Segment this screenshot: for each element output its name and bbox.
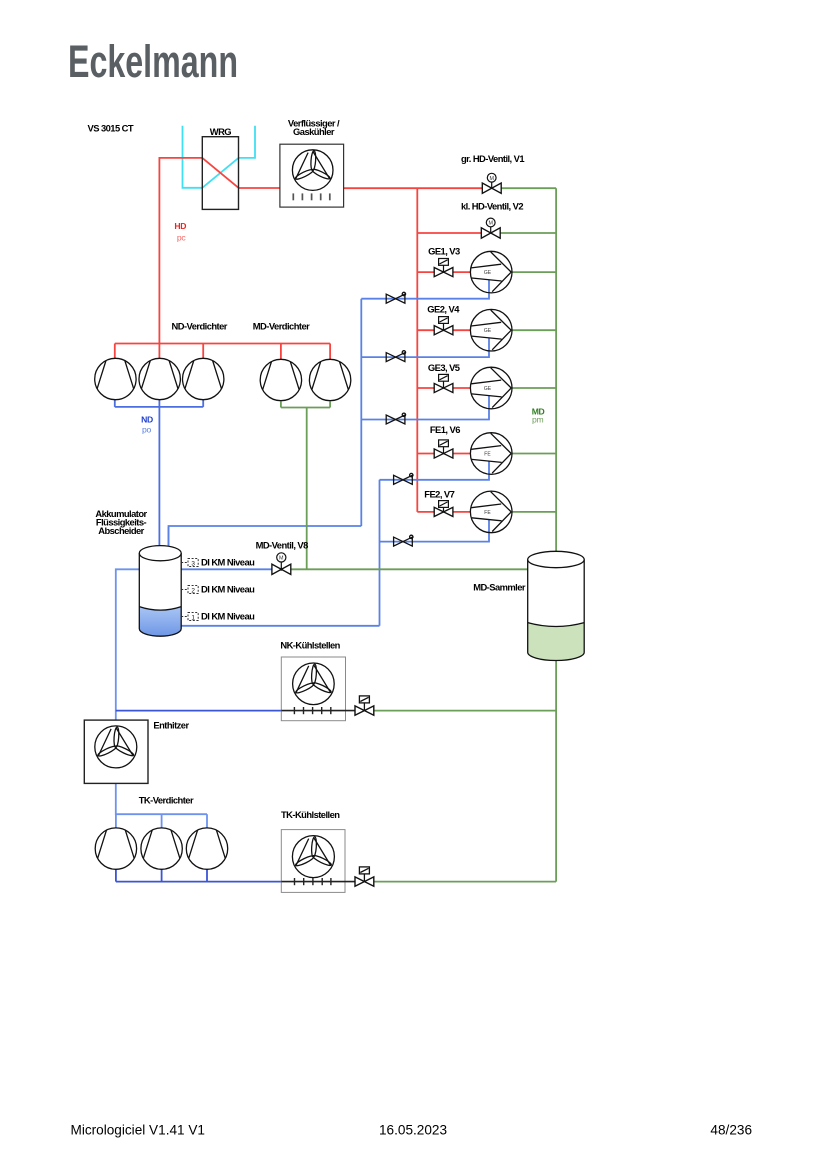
wire blue NK feed bbox=[116, 710, 281, 712]
wire red branch V2 bbox=[417, 232, 481, 234]
wire red stub ND2 bbox=[158, 344, 160, 360]
compressor GE1 bbox=[470, 251, 512, 293]
wire cyan WRG water in bbox=[183, 126, 203, 188]
svg-text:VS 3015 CT: VS 3015 CT bbox=[88, 123, 134, 134]
wire green FE1 out bbox=[512, 453, 556, 455]
svg-text:M: M bbox=[279, 556, 284, 562]
svg-text:GE3, V5: GE3, V5 bbox=[428, 362, 460, 373]
wire blue bypass FE1 bbox=[380, 462, 490, 480]
wire green V8 to MD-Sammler bbox=[291, 568, 528, 570]
wire cyan WRG water out bbox=[239, 126, 256, 158]
compressor ND1 bbox=[95, 358, 136, 399]
wire blue accumulator bottom to FE riser bbox=[181, 625, 379, 627]
wire blue Enthitzer to TK header bbox=[116, 783, 207, 814]
valve bypass FE1 bbox=[394, 473, 413, 484]
valve bypass FE2 bbox=[394, 535, 413, 546]
Enthitzer box bbox=[84, 720, 148, 783]
svg-text:pm: pm bbox=[532, 415, 543, 425]
valve GE3 V5 solenoid bbox=[434, 374, 453, 392]
svg-text:FE2, V7: FE2, V7 bbox=[424, 489, 454, 500]
svg-text:gr. HD-Ventil, V1: gr. HD-Ventil, V1 bbox=[461, 153, 524, 164]
compressor FE1 bbox=[470, 433, 512, 475]
wire blue bypass FE2 bbox=[380, 520, 490, 542]
wire blue bypass GE3 bbox=[361, 396, 489, 420]
valve V1 bbox=[482, 173, 501, 193]
compressor ND2 bbox=[139, 358, 180, 399]
valve bypass GE2 bbox=[386, 351, 405, 362]
valve V2 bbox=[481, 218, 500, 238]
svg-text:16.05.2023: 16.05.2023 bbox=[379, 1122, 447, 1137]
svg-text:DI KM Niveau: DI KM Niveau bbox=[201, 611, 255, 622]
wire blue bypass vertical 1 bbox=[360, 299, 362, 526]
svg-text:1: 1 bbox=[191, 614, 195, 621]
wire red HD from WRG corner bbox=[159, 158, 202, 344]
svg-text:GE: GE bbox=[484, 328, 492, 334]
svg-text:kl. HD-Ventil, V2: kl. HD-Ventil, V2 bbox=[461, 201, 523, 212]
valve bypass GE3 bbox=[386, 413, 405, 424]
svg-text:48/236: 48/236 bbox=[710, 1122, 752, 1137]
svg-text:2: 2 bbox=[191, 587, 195, 594]
svg-text:ND: ND bbox=[141, 415, 153, 425]
svg-text:TK-Verdichter: TK-Verdichter bbox=[139, 794, 194, 805]
wire green GE2 out bbox=[512, 329, 556, 331]
valve FE1 V6 solenoid bbox=[434, 440, 453, 458]
wire red branch FE2 bbox=[417, 511, 470, 513]
sensor DI KM Niveau 1 bbox=[181, 611, 255, 622]
wire red HD vertical bbox=[416, 188, 418, 512]
compressor FE2 bbox=[470, 491, 512, 533]
TK box bbox=[281, 830, 355, 893]
svg-text:DI KM Niveau: DI KM Niveau bbox=[201, 584, 255, 595]
valve GE2 V4 solenoid bbox=[434, 317, 453, 335]
vessel MD-Sammler bbox=[528, 551, 585, 660]
svg-text:GE2, V4: GE2, V4 bbox=[427, 304, 460, 315]
wire blue TK stub top 2 bbox=[161, 814, 163, 829]
wire blue accumulator top header bbox=[169, 526, 362, 555]
wire blue bypass GE2 bbox=[361, 338, 489, 357]
wire green V2 out bbox=[500, 232, 556, 234]
valve FE2 V7 solenoid bbox=[434, 501, 453, 517]
wire blue TK stub bottom 3 bbox=[206, 869, 208, 882]
svg-text:M: M bbox=[488, 221, 493, 227]
svg-text:Abscheider: Abscheider bbox=[98, 525, 144, 536]
svg-text:M: M bbox=[489, 176, 494, 182]
wire blue TK stub bottom 2 bbox=[161, 869, 163, 882]
wire red stub ND3 bbox=[202, 344, 204, 360]
svg-text:Micrologiciel V1.41 V1: Micrologiciel V1.41 V1 bbox=[71, 1122, 206, 1137]
wire red ND/MD discharge header bbox=[115, 343, 330, 345]
wire red branch GE2 bbox=[417, 329, 470, 331]
wire red branch GE1 bbox=[417, 271, 470, 273]
svg-text:pc: pc bbox=[177, 233, 186, 243]
wire green GE3 out bbox=[512, 387, 556, 389]
valve NK solenoid bbox=[355, 696, 374, 715]
wire red WRG to Verfluessiger bbox=[239, 187, 280, 189]
wire green NK return bbox=[374, 710, 556, 712]
svg-text:Enthitzer: Enthitzer bbox=[153, 720, 189, 731]
compressor MD2 bbox=[309, 359, 350, 400]
svg-text:WRG: WRG bbox=[210, 126, 232, 137]
valve TK solenoid bbox=[355, 867, 374, 886]
wire green FE2 out bbox=[512, 511, 556, 513]
svg-text:GE1, V3: GE1, V3 bbox=[428, 245, 460, 256]
compressor GE2 bbox=[470, 309, 512, 351]
compressor TK1 bbox=[95, 828, 136, 869]
compressor GE3 bbox=[470, 367, 512, 409]
svg-text:GE: GE bbox=[484, 270, 492, 276]
wire red branch FE1 bbox=[417, 453, 470, 455]
wire green V1 out bbox=[501, 187, 556, 189]
svg-text:Eckelmann: Eckelmann bbox=[68, 36, 238, 87]
svg-text:DI KM Niveau: DI KM Niveau bbox=[201, 557, 255, 568]
wire green TK return bbox=[374, 881, 556, 883]
svg-text:ND-Verdichter: ND-Verdichter bbox=[172, 321, 228, 332]
wire red Verfluessiger to V1 bbox=[344, 187, 483, 189]
wire blue bypass vertical 2 bbox=[379, 480, 381, 626]
svg-text:po: po bbox=[142, 425, 151, 435]
wire green MD-Sammler bottom vertical bbox=[555, 655, 557, 882]
svg-text:TK-Kühlstellen: TK-Kühlstellen bbox=[281, 809, 340, 820]
wire blue TK stub top 3 bbox=[206, 814, 208, 829]
compressor TK2 bbox=[141, 828, 182, 869]
wire blue TK bottom line bbox=[116, 881, 281, 883]
sensor DI KM Niveau 2 bbox=[181, 584, 255, 595]
wire blue TK stub top 1 bbox=[115, 814, 117, 829]
wire green MD suction header bbox=[281, 402, 330, 408]
wire red WRG diagonal bbox=[202, 158, 238, 188]
svg-text:MD-Ventil, V8: MD-Ventil, V8 bbox=[256, 539, 309, 550]
compressor ND3 bbox=[183, 358, 224, 399]
compressor MD1 bbox=[260, 359, 301, 400]
valve V8 bbox=[272, 553, 291, 575]
Verfluessiger box bbox=[280, 144, 344, 207]
wire red stub MD1 bbox=[280, 344, 282, 360]
wire green MD vertical upper bbox=[555, 188, 557, 554]
svg-text:MD-Sammler: MD-Sammler bbox=[473, 581, 526, 592]
svg-text:FE1, V6: FE1, V6 bbox=[430, 424, 460, 435]
wire cyan WRG diagonal bbox=[202, 158, 238, 188]
svg-text:GE: GE bbox=[484, 386, 492, 392]
valve GE1 V3 solenoid bbox=[434, 259, 453, 277]
svg-text:MD-Verdichter: MD-Verdichter bbox=[253, 321, 310, 332]
wire green MD suction down bbox=[306, 408, 308, 570]
wire red stub MD2 bbox=[329, 344, 331, 360]
wire red stub ND1 bbox=[114, 344, 116, 360]
wire blue ND suction header bbox=[115, 400, 203, 407]
NK box bbox=[281, 657, 355, 721]
wire blue accumulator to Enthitzer bbox=[116, 569, 140, 720]
wire red branch GE3 bbox=[417, 387, 470, 389]
compressor TK3 bbox=[186, 828, 227, 869]
svg-text:NK-Kühlstellen: NK-Kühlstellen bbox=[280, 640, 340, 651]
svg-text:HD: HD bbox=[174, 221, 186, 231]
svg-text:3: 3 bbox=[191, 560, 195, 567]
wire blue accumulator to V8 bbox=[181, 568, 272, 570]
wire blue ND down to accumulator bbox=[158, 407, 160, 553]
svg-text:FE: FE bbox=[484, 510, 491, 516]
wire blue bypass GE1 bbox=[361, 280, 489, 299]
svg-text:FE: FE bbox=[484, 451, 491, 457]
valve bypass GE1 bbox=[386, 292, 405, 303]
svg-text:Gaskühler: Gaskühler bbox=[293, 126, 335, 137]
vessel Akkumulator bbox=[139, 546, 181, 637]
wire blue accumulator drop from bypass header bbox=[168, 527, 170, 555]
wire green GE1 out bbox=[512, 271, 556, 273]
sensor DI KM Niveau 3 bbox=[181, 557, 255, 568]
wire blue TK stub bottom 1 bbox=[115, 869, 117, 882]
WRG box bbox=[202, 137, 238, 210]
